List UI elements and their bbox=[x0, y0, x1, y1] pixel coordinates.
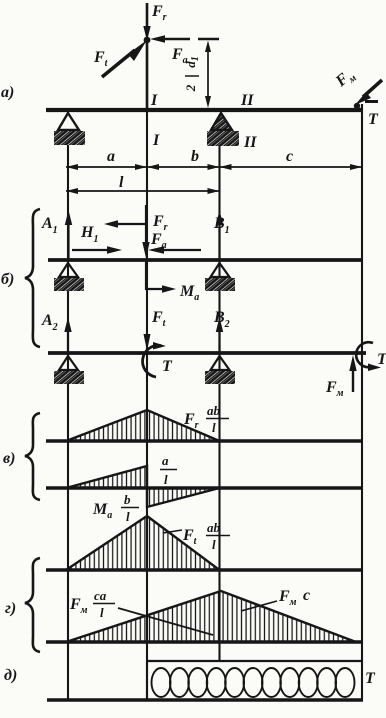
svg-text:ab: ab bbox=[207, 403, 221, 418]
support II beam1 bbox=[205, 263, 235, 291]
baseline diagram 2 bbox=[46, 486, 362, 489]
label Fr ab/l bbox=[183, 403, 229, 435]
torque T arc at gear bbox=[143, 342, 166, 377]
svg-text:c: c bbox=[303, 587, 310, 604]
torque diagram rectangle top bbox=[147, 660, 362, 662]
section vertical x=362 bbox=[361, 104, 363, 700]
section ordinate line bbox=[118, 608, 213, 635]
label FM c bbox=[278, 587, 310, 608]
svg-text:l: l bbox=[164, 472, 168, 487]
svg-text:T: T bbox=[162, 358, 173, 375]
label a/l bbox=[160, 453, 177, 487]
svg-text:в): в) bbox=[3, 450, 15, 467]
dimension line a b c bbox=[66, 164, 362, 170]
moment diagram Ma upper bbox=[66, 466, 147, 488]
svg-text:г): г) bbox=[5, 600, 16, 617]
section vertical x=147 bbox=[146, 40, 148, 661]
support I beam2 bbox=[54, 356, 84, 384]
svg-text:T: T bbox=[365, 670, 376, 687]
svg-text:I: I bbox=[150, 92, 158, 109]
torque coil loops bbox=[152, 668, 355, 697]
torque diagram left edge bbox=[146, 661, 148, 700]
force FM at shaft end bbox=[354, 80, 382, 109]
moment diagram Ma lower bbox=[147, 488, 220, 507]
moment diagram FM c bbox=[66, 591, 356, 642]
reaction B1 arrow bbox=[216, 210, 223, 258]
svg-text:c: c bbox=[286, 148, 293, 165]
label FM ca/l bbox=[69, 588, 115, 620]
force Ft arrow bbox=[144, 334, 151, 351]
brace v bbox=[25, 413, 40, 500]
beam 2 bbox=[48, 351, 366, 355]
force FM arrow beam2 bbox=[349, 355, 356, 392]
baseline diagram 5 bbox=[47, 698, 363, 701]
svg-text:l: l bbox=[100, 605, 104, 620]
leader line bbox=[163, 530, 182, 533]
reaction A2 arrow bbox=[64, 317, 71, 351]
svg-text:l: l bbox=[212, 537, 216, 552]
shaft axis line bbox=[46, 108, 362, 112]
reaction B2 arrow bbox=[216, 317, 223, 351]
dimension line l bbox=[66, 188, 220, 194]
moment diagram Ft ab/l bbox=[66, 516, 220, 570]
svg-text:a: a bbox=[107, 148, 115, 165]
svg-text:д): д) bbox=[4, 667, 17, 684]
beam 1 bbox=[48, 258, 362, 262]
reaction A1 arrow bbox=[65, 210, 72, 258]
svg-text:l: l bbox=[119, 174, 124, 191]
leader line FM c bbox=[241, 601, 277, 611]
support I beam1 bbox=[54, 263, 84, 291]
support II beam2 bbox=[205, 356, 235, 384]
svg-text:l: l bbox=[126, 509, 130, 524]
label Ma b/l bbox=[92, 492, 139, 524]
moment Ma bent arrow bbox=[146, 262, 176, 293]
label FM rotated bbox=[332, 66, 359, 93]
svg-text:T: T bbox=[368, 111, 379, 128]
svg-text:l: l bbox=[212, 420, 216, 435]
svg-text:2: 2 bbox=[183, 84, 198, 92]
force Fr transferred, bent arrow bbox=[104, 205, 150, 258]
svg-text:b: b bbox=[124, 492, 131, 507]
dimension d1/2 bbox=[198, 39, 219, 108]
svg-text:ab: ab bbox=[207, 520, 221, 535]
svg-text:II: II bbox=[240, 92, 254, 109]
force Fa arrow bbox=[150, 35, 190, 42]
support II of shaft bbox=[207, 113, 239, 146]
svg-text:б): б) bbox=[1, 271, 14, 288]
force Fa on beam bbox=[148, 246, 201, 253]
svg-text:I: I bbox=[152, 132, 160, 149]
brace b bbox=[25, 209, 40, 347]
label Ft ab/l bbox=[182, 520, 230, 552]
baseline diagram 1 bbox=[46, 439, 362, 442]
baseline diagram 4 bbox=[46, 640, 362, 643]
torque T arc at right end bbox=[356, 342, 381, 371]
svg-text:a: a bbox=[162, 453, 169, 468]
section vertical x=219 bbox=[218, 131, 220, 661]
force Fr arrow bbox=[143, 3, 150, 110]
section vertical x=68 bbox=[67, 131, 69, 700]
svg-text:II: II bbox=[243, 134, 257, 151]
svg-text:T: T bbox=[377, 351, 386, 368]
svg-text:b: b bbox=[191, 148, 199, 165]
reaction H1 arrow bbox=[72, 246, 122, 253]
baseline diagram 3 bbox=[46, 568, 362, 571]
label d1/2 rotated bbox=[183, 56, 201, 92]
force Ft arrow bbox=[102, 40, 147, 77]
support I of shaft bbox=[54, 113, 85, 145]
svg-text:а): а) bbox=[1, 84, 14, 101]
brace g bbox=[25, 558, 40, 652]
svg-text:ca: ca bbox=[94, 588, 107, 603]
moment diagram Fr ab/l bbox=[66, 410, 220, 441]
